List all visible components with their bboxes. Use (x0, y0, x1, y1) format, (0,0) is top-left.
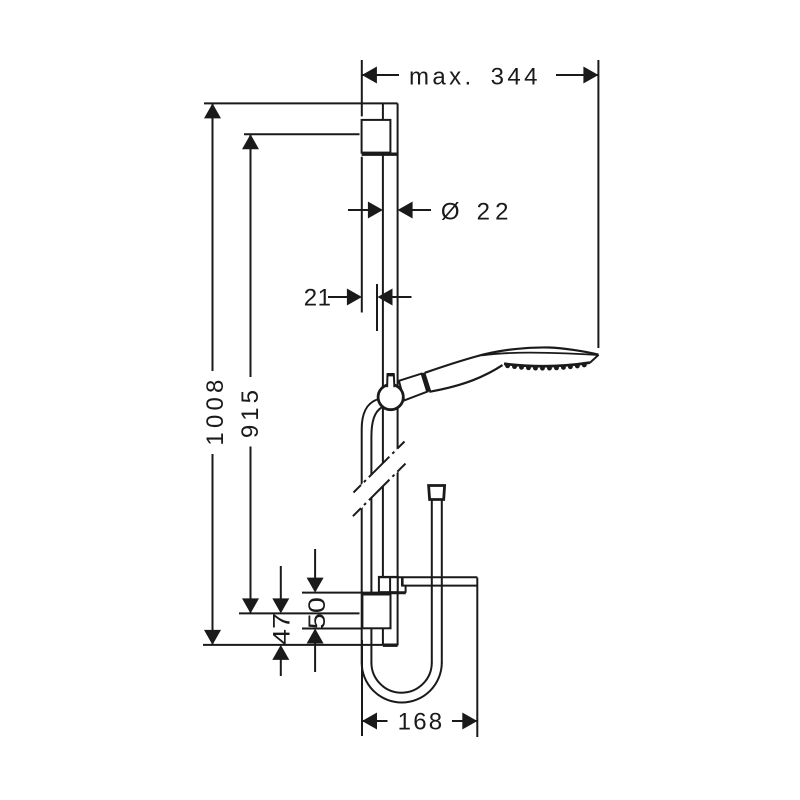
dim diameter22 right arrow (398, 202, 413, 219)
wall bracket body (362, 120, 391, 153)
clamp inner line (389, 577, 391, 592)
svg-text:max. 344: max. 344 (409, 64, 541, 91)
hose right branch outer line over dish (441, 500, 443, 663)
svg-text:915: 915 (237, 386, 264, 438)
soap dish top line (379, 576, 477, 578)
rail tube left edge (382, 103, 384, 645)
rail clamp of soap dish (379, 577, 398, 592)
dim max344 left extension line upper (361, 60, 363, 116)
svg-text:50: 50 (304, 597, 331, 629)
dim 47 bottom arrow (272, 645, 289, 660)
break mark lower dash-dot line (353, 464, 406, 517)
rail tube right edge (397, 103, 399, 645)
svg-text:168: 168 (398, 709, 445, 736)
break mark white strip (352, 441, 406, 516)
svg-text:1008: 1008 (202, 375, 229, 445)
dim 1008 line upper (212, 103, 214, 371)
hose U-turn inner arc (371, 663, 431, 693)
soap dish bottom line (402, 585, 477, 587)
dim max344 right extension line (597, 60, 599, 348)
dim 1008 extension bottom (203, 644, 398, 646)
dim 1008 top arrow (204, 103, 221, 118)
dim 915 extension top (244, 133, 360, 135)
dim 50 bottom line (302, 628, 362, 630)
hand shower spray nozzles (508, 364, 588, 368)
hand shower spray face arc (504, 363, 590, 367)
dim max344 line right part (556, 74, 598, 76)
dim 168 right arrow (462, 713, 477, 730)
hose right branch inner line over dish (431, 500, 433, 663)
holder pin cap (387, 373, 395, 376)
clamp bottom thick line (379, 591, 406, 594)
svg-text:Ø 22: Ø 22 (441, 199, 514, 226)
soap dish left step vertical (401, 578, 404, 587)
dim 21 right arrow (378, 289, 393, 306)
dim 50 bottom arrow (307, 629, 324, 644)
dim diameter22 left arrow (368, 202, 383, 219)
dim 47 top arrow (272, 598, 289, 613)
dim 21 tick (376, 284, 378, 331)
slider block (362, 595, 390, 629)
dim 168 left extension line (361, 640, 363, 736)
dim 915 line lower (250, 447, 252, 614)
dim 50 top line (302, 592, 380, 594)
dim max344 left extension line lower (361, 157, 363, 313)
hand shower grip band (423, 373, 429, 392)
dim 168 right extension line (476, 578, 478, 738)
dim 168 line right part (452, 720, 477, 722)
dim 1008 line lower (212, 454, 214, 645)
wall bracket bottom thick line (362, 152, 398, 155)
break mark upper dash-dot line (354, 442, 405, 493)
hand shower head rim line (482, 353, 598, 356)
dim 915 line upper (250, 134, 252, 377)
dim 168 left arrow (362, 713, 377, 730)
dim 21 left arrow (347, 289, 362, 306)
dim diameter22 left tail (348, 209, 369, 211)
dim 915 extension bottom (239, 612, 360, 614)
hand shower handle and head top edge (425, 347, 599, 372)
hose left branch outer line (362, 400, 377, 664)
hose left branch inner line (371, 408, 381, 664)
hand shower handle bottom edge (429, 365, 502, 392)
hand shower cone joint (399, 374, 427, 401)
dim 47 top tail (280, 566, 282, 600)
holder pin (387, 374, 394, 387)
dim 21 right tail (392, 296, 412, 298)
hose connector cone (429, 486, 445, 500)
soap dish step to clamp vertical (405, 586, 407, 593)
dim 915 bottom arrow (242, 598, 259, 613)
dim 915 top arrow (242, 134, 259, 149)
dim 1008 bottom arrow (204, 630, 221, 645)
holder knob (378, 385, 403, 410)
svg-text:47: 47 (268, 613, 295, 645)
rail top cap line (204, 102, 398, 104)
dim 50 top tail (314, 549, 316, 579)
rail bottom end cap (383, 644, 398, 647)
dim 47 bottom tail (280, 659, 282, 676)
hose U-turn outer arc (362, 663, 442, 703)
dim 168 line left part (362, 720, 388, 722)
hand shower head tip (590, 355, 599, 363)
dim max344 right arrow (583, 67, 598, 84)
svg-text:21: 21 (304, 285, 332, 312)
dim 50 top arrow (307, 578, 324, 593)
dim 50 bottom tail (314, 643, 316, 673)
dim max344 left arrow (362, 67, 377, 84)
dim max344 line left part (362, 74, 399, 76)
dim 21 left tail (328, 296, 349, 298)
dim diameter22 right tail (412, 209, 431, 211)
